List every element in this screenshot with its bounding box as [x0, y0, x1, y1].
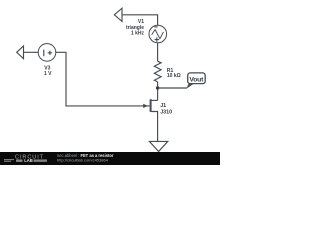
- V1 plus sign: [155, 37, 160, 41]
- resistor R1 zigzag: [154, 61, 161, 82]
- svg-text:1 kHz: 1 kHz: [131, 31, 145, 37]
- JFET source stub: [151, 112, 157, 142]
- footer black bar: [0, 152, 220, 165]
- svg-text:J1: J1: [160, 103, 166, 109]
- V1 triangle-wave glyph: [152, 30, 164, 39]
- wire V1 to R1: [157, 43, 159, 62]
- wire R1 to drain: [157, 82, 159, 101]
- node flag (V3 left terminal): [17, 46, 24, 59]
- svg-text:LAB: LAB: [24, 158, 33, 163]
- CircuitLab logo wordmark: [4, 155, 47, 163]
- wire flag to V1 top: [122, 15, 158, 25]
- svg-text:J310: J310: [160, 110, 172, 116]
- V3 bar glyph: [43, 50, 45, 57]
- svg-text:1 V: 1 V: [44, 71, 52, 77]
- JFET gate arrow: [143, 104, 148, 108]
- V3 plus sign: [48, 51, 52, 55]
- JFET channel bar: [150, 99, 152, 112]
- svg-text:Vout: Vout: [189, 76, 204, 83]
- V1 minus sign: [154, 26, 157, 28]
- svg-text:http://circuitlab.com/c453864: http://circuitlab.com/c453864: [57, 158, 109, 163]
- svg-text:10 kΩ: 10 kΩ: [167, 73, 181, 79]
- JFET drain stub: [151, 99, 157, 101]
- voltage source V1 (triangle wave source): [149, 25, 167, 43]
- junction node: [156, 86, 159, 89]
- wire V3 to gate: [56, 52, 150, 106]
- voltage source V3: [38, 44, 56, 62]
- ground: [149, 141, 167, 151]
- wire junction to Vout flag: [158, 87, 187, 89]
- node flag (top input terminal): [114, 8, 122, 21]
- Vout flag: [186, 73, 205, 89]
- wire flag to V3: [24, 51, 39, 53]
